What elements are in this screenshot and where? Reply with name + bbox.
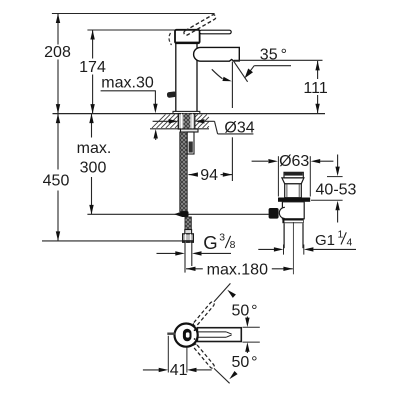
svg-text:3: 3 [219,232,225,243]
svg-text:max.: max. [77,140,112,157]
svg-text:Ø63: Ø63 [279,153,309,170]
svg-text:50°: 50° [232,302,258,319]
svg-text:111: 111 [303,80,327,97]
svg-text:G1: G1 [315,232,335,249]
svg-text:450: 450 [43,173,70,190]
svg-text:4: 4 [347,238,353,249]
svg-text:40-53: 40-53 [316,182,357,199]
svg-text:50°: 50° [232,354,258,371]
svg-text:35°: 35° [260,46,287,63]
svg-text:41: 41 [170,362,188,379]
svg-text:1: 1 [338,230,344,241]
svg-text:Ø34: Ø34 [224,120,254,137]
svg-text:300: 300 [80,159,107,176]
svg-text:208: 208 [44,44,71,61]
svg-text:174: 174 [79,59,106,76]
svg-text:8: 8 [230,240,236,251]
svg-text:max.180: max.180 [207,261,268,278]
svg-text:max.30: max.30 [101,75,154,92]
svg-text:94: 94 [200,167,218,184]
svg-text:G: G [203,232,217,253]
